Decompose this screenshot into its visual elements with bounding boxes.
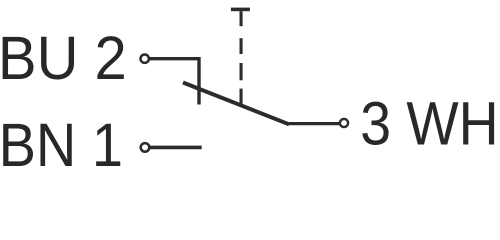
wire from BU 2 terminal — [150, 59, 199, 105]
svg-text:BN 1: BN 1 — [0, 112, 123, 174]
wire to 3 WH terminal — [287, 122, 339, 125]
actuator dashed line (dash 3) — [240, 63, 243, 80]
wire from BN 1 terminal — [150, 146, 202, 150]
svg-text:BU 2: BU 2 — [0, 24, 127, 93]
terminal circle 3 WH — [340, 119, 348, 127]
svg-text:3 WH: 3 WH — [360, 90, 498, 158]
terminal circle BU 2 — [141, 55, 149, 63]
actuator dashed line (dash 4) — [240, 89, 243, 105]
actuator dashed line (dash 2) — [240, 38, 243, 54]
terminal circle BN 1 — [141, 143, 150, 152]
switch blade — [183, 83, 289, 125]
actuator dashed line (dash 1) — [240, 11, 243, 26]
actuator T bar — [231, 8, 250, 12]
